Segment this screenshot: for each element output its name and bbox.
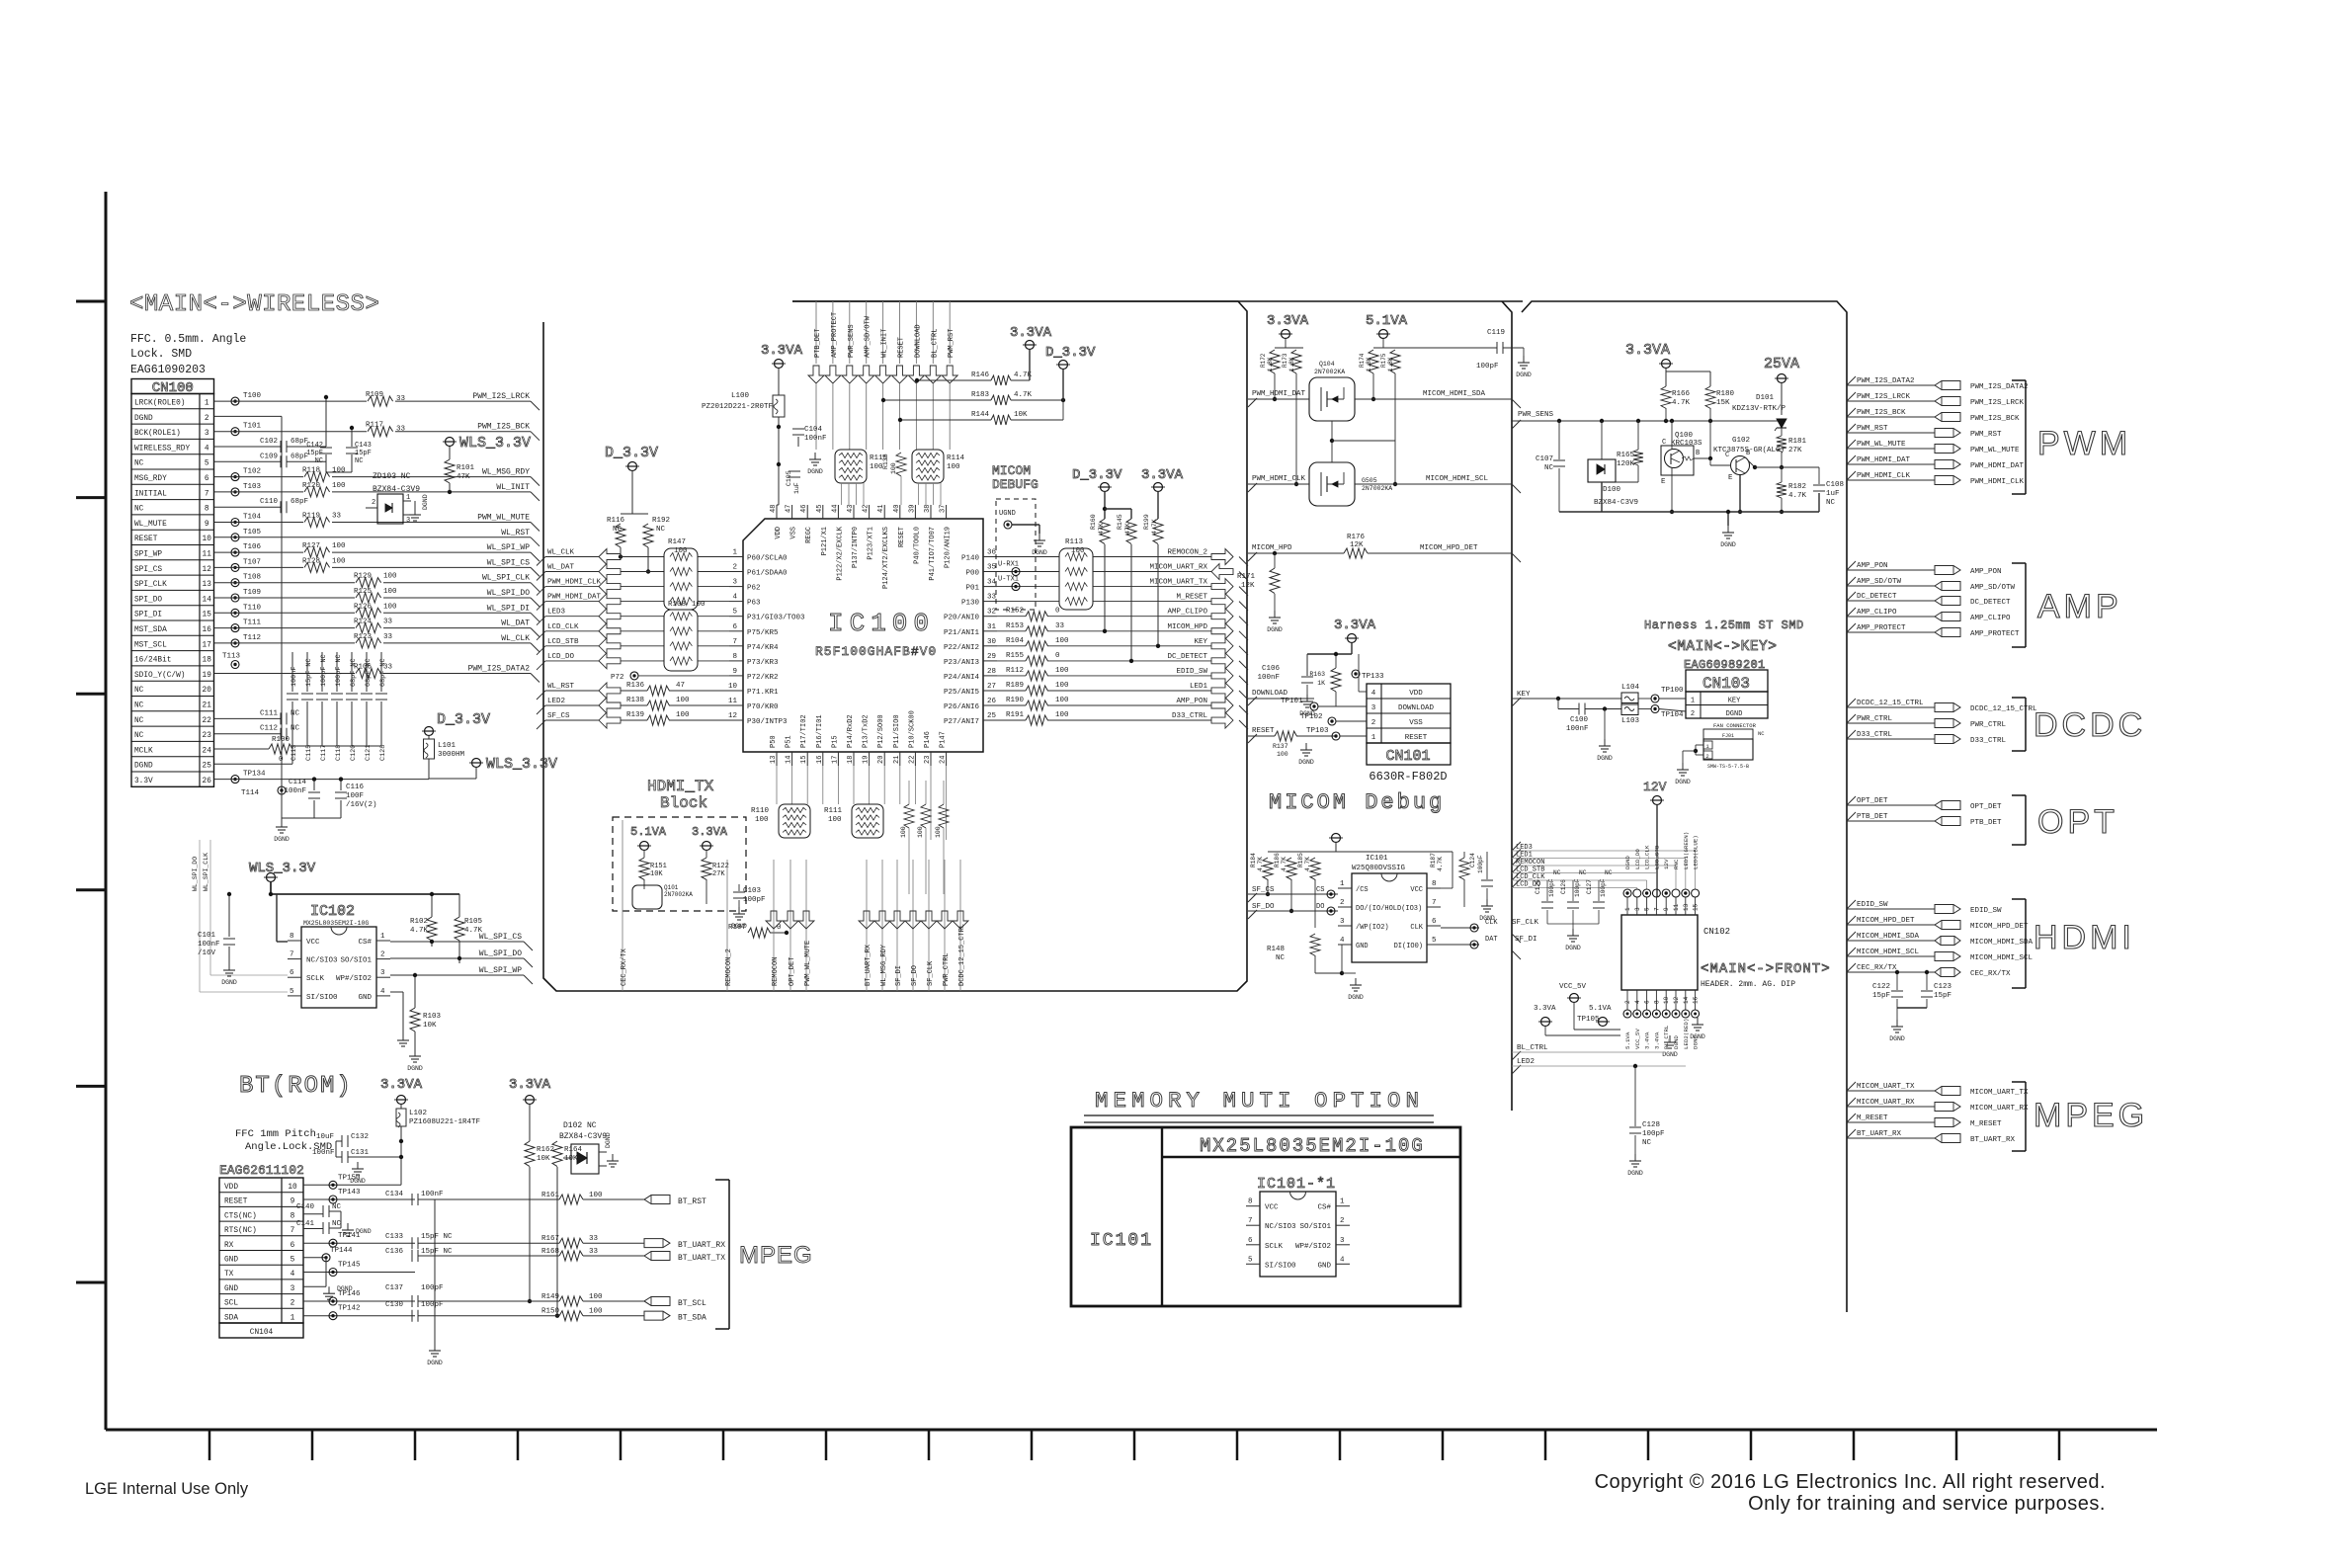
svg-text:100F: 100F — [346, 792, 364, 800]
wire net EDID_SW / resistor R112 — [997, 667, 1248, 685]
svg-text:34: 34 — [987, 579, 997, 587]
wire net AMP_CLIPO to edge — [1847, 608, 2011, 622]
svg-text:SF_DO: SF_DO — [1252, 903, 1275, 911]
svg-text:NC: NC — [134, 506, 144, 514]
svg-text:DGND: DGND — [422, 494, 429, 510]
svg-text:WL_MUTE: WL_MUTE — [134, 521, 167, 529]
svg-text:100nF: 100nF — [284, 787, 306, 795]
svg-text:1.8K: 1.8K — [1387, 357, 1394, 371]
svg-text:KEY: KEY — [1728, 698, 1741, 705]
test point T102 — [231, 473, 239, 481]
svg-text:PWM_I2S_BCK: PWM_I2S_BCK — [1970, 415, 2020, 423]
svg-text:45: 45 — [816, 505, 824, 513]
svg-text:7: 7 — [290, 951, 294, 959]
IC100 left pin 4 — [729, 601, 743, 603]
svg-text:2: 2 — [380, 951, 385, 959]
capacitors C125 C126 C127 — [1535, 869, 1613, 951]
svg-text:R147: R147 — [668, 538, 686, 546]
capacitor C142 C143 — [306, 395, 372, 472]
svg-text:3.3VA: 3.3VA — [1141, 467, 1184, 483]
svg-text:DGND: DGND — [1597, 755, 1613, 762]
svg-text:REMOCON_2: REMOCON_2 — [1167, 549, 1207, 557]
svg-text:RESET: RESET — [898, 337, 906, 358]
test point T110 — [231, 609, 239, 617]
svg-text:SI/SIO0: SI/SIO0 — [1265, 1262, 1296, 1270]
svg-text:DGND: DGND — [1627, 1170, 1643, 1177]
power 3.3VA debug — [1141, 467, 1184, 519]
svg-text:EDID_SW: EDID_SW — [1176, 668, 1207, 676]
svg-text:41: 41 — [877, 505, 885, 513]
ground DGND C100 — [1597, 709, 1613, 763]
resistor R119 — [302, 513, 342, 529]
resistor R164 10K — [552, 1126, 583, 1318]
svg-text:15K: 15K — [1716, 399, 1730, 407]
svg-text:DGND: DGND — [807, 468, 823, 475]
svg-text:Harness 1.25mm ST SMD: Harness 1.25mm ST SMD — [1644, 619, 1804, 632]
svg-text:C124: C124 — [1469, 853, 1476, 867]
svg-text:100nF: 100nF — [291, 667, 298, 687]
svg-text:MICOM_UART_RX: MICOM_UART_RX — [1970, 1105, 2029, 1113]
svg-text:12: 12 — [203, 566, 212, 574]
vertical net SF_DO — [911, 860, 919, 991]
vertical net REMOCON — [772, 860, 780, 991]
diode D102 BZX84-C3V9 — [557, 1121, 619, 1174]
svg-text:P124/XT2/EXCLKS: P124/XT2/EXCLKS — [882, 527, 890, 589]
svg-text:R5F100GHAFB#V0: R5F100GHAFB#V0 — [815, 644, 937, 659]
svg-text:47K: 47K — [1098, 523, 1105, 535]
svg-text:R155: R155 — [1006, 652, 1025, 660]
svg-text:15pF: 15pF — [355, 450, 372, 457]
svg-text:C120: C120 — [350, 745, 358, 761]
svg-text:PWR_CTRL: PWR_CTRL — [943, 952, 951, 986]
svg-text:NC: NC — [134, 460, 144, 468]
svg-text:BT_UART_RX: BT_UART_RX — [1970, 1136, 2016, 1144]
resistor R192 NC — [643, 514, 670, 574]
wire net CEC_RX/TX to edge — [1847, 963, 2011, 978]
svg-text:EAG61090203: EAG61090203 — [130, 364, 206, 376]
svg-text:R105: R105 — [464, 918, 483, 926]
svg-text:27: 27 — [987, 683, 996, 691]
svg-text:12K: 12K — [1241, 582, 1255, 590]
svg-text:3.3VA: 3.3VA — [1010, 325, 1052, 341]
resistor R101 — [445, 447, 475, 494]
svg-text:VCC: VCC — [306, 939, 320, 947]
svg-text:WIRELESS_RDY: WIRELESS_RDY — [134, 445, 190, 453]
vertical nets WL_SPI_DO WL_SPI_CLK — [192, 840, 288, 992]
capacitor C106 100nF — [1257, 654, 1314, 717]
IC100 right pin 26 — [983, 704, 997, 706]
IC100 bottom pin 17 — [837, 752, 839, 766]
svg-text:10: 10 — [728, 683, 738, 691]
resistor R183 4.7K — [881, 391, 1065, 405]
svg-text:R176: R176 — [1347, 534, 1366, 541]
resistor array R110 — [751, 804, 810, 838]
svg-text:Block: Block — [660, 794, 707, 812]
arrow down bottom bus — [889, 911, 905, 929]
capacitor bank C113-C128 — [287, 652, 387, 761]
svg-text:0: 0 — [279, 756, 284, 764]
wire SF_DI from winbond — [1441, 936, 1537, 949]
svg-text:R145: R145 — [1117, 514, 1123, 530]
wire net REMOCON — [1512, 857, 1676, 889]
arrow down net AMP_SD/OTW — [859, 366, 874, 383]
svg-text:T106: T106 — [243, 543, 262, 551]
svg-text:OPT_DET: OPT_DET — [1970, 803, 2002, 811]
svg-text:6630R-F802D: 6630R-F802D — [1369, 770, 1447, 784]
flag SF_CLK SF_DI at border — [1512, 934, 1521, 959]
capacitor C109 — [214, 453, 327, 467]
ground DGND GND3 — [303, 1285, 353, 1299]
IC100 left pin 1 — [729, 556, 743, 558]
svg-text:68pF: 68pF — [291, 498, 308, 506]
svg-text:2: 2 — [1371, 719, 1376, 727]
svg-text:CEC_RX/TX: CEC_RX/TX — [1857, 964, 1897, 972]
svg-text:R144: R144 — [971, 411, 990, 419]
svg-text:P22/ANI2: P22/ANI2 — [944, 644, 979, 652]
svg-text:100nF: 100nF — [312, 1149, 335, 1157]
svg-text:6: 6 — [1644, 1000, 1651, 1004]
svg-text:C128: C128 — [379, 745, 387, 761]
svg-text:VDD: VDD — [1409, 690, 1423, 698]
svg-text:P11/SIO0: P11/SIO0 — [893, 714, 901, 748]
svg-text:CS: CS — [1316, 886, 1324, 894]
svg-text:C116: C116 — [346, 784, 365, 791]
wire net PWR_CTRL to edge — [1847, 714, 2007, 729]
svg-text:T111: T111 — [243, 619, 262, 627]
svg-text:R113: R113 — [1065, 538, 1084, 546]
harness text MAIN-KEY — [1644, 619, 1804, 672]
svg-text:14: 14 — [1683, 996, 1690, 1004]
svg-text:P01: P01 — [965, 585, 979, 593]
svg-text:D_3.3V: D_3.3V — [1072, 467, 1122, 483]
svg-text:P75/KR5: P75/KR5 — [747, 629, 779, 637]
svg-text:PTB_DET: PTB_DET — [1857, 813, 1888, 821]
resistor R148 NC — [1267, 928, 1320, 973]
svg-text:5.1VA: 5.1VA — [1366, 313, 1408, 329]
svg-text:R135: R135 — [882, 454, 889, 469]
resistor R185 4.7K — [1297, 852, 1320, 928]
svg-text:16: 16 — [816, 756, 824, 764]
ground DGND below CN100 — [274, 790, 341, 843]
vertical net CEC_RX/TX — [621, 820, 628, 991]
svg-text:4: 4 — [1371, 690, 1376, 698]
svg-text:C110: C110 — [260, 498, 279, 506]
resistor R116 NC — [607, 514, 625, 559]
IC100 left pin 7 — [729, 645, 743, 647]
resistor R181 27K — [1777, 436, 1807, 469]
svg-text:DGND: DGND — [1516, 371, 1532, 378]
svg-text:PWM_I2S_BCK: PWM_I2S_BCK — [477, 423, 530, 432]
svg-text:8: 8 — [291, 1212, 295, 1220]
svg-text:PWM_RST: PWM_RST — [948, 329, 955, 358]
svg-text:NC: NC — [1642, 1139, 1652, 1147]
svg-text:MX25L8035EM2I-10G: MX25L8035EM2I-10G — [1200, 1135, 1425, 1157]
svg-text:R164: R164 — [564, 1146, 583, 1154]
svg-text:1: 1 — [291, 1314, 295, 1322]
svg-text:7: 7 — [1432, 899, 1437, 907]
svg-text:MICOM_HDMI_SCL: MICOM_HDMI_SCL — [1426, 475, 1489, 483]
svg-text:R163: R163 — [1309, 671, 1325, 678]
vertical net PWM_WL_MUTE — [804, 860, 812, 991]
resistor R126 — [354, 603, 397, 619]
svg-text:23: 23 — [203, 732, 212, 740]
svg-text:DGND: DGND — [1720, 541, 1736, 548]
wire net LCD_DO — [537, 653, 664, 670]
svg-text:IC100: IC100 — [828, 609, 935, 638]
svg-text:33: 33 — [1055, 622, 1065, 630]
svg-text:L100: L100 — [731, 392, 750, 400]
svg-text:R128: R128 — [302, 557, 320, 565]
wire net LED3 — [1512, 842, 1696, 889]
resistor R161 / stub BT_RST — [435, 1192, 706, 1206]
svg-text:REMOCON_2: REMOCON_2 — [725, 949, 733, 986]
IC100 bottom pin 18 — [853, 752, 855, 766]
svg-text:42: 42 — [863, 505, 871, 513]
svg-text:68pF NC: 68pF NC — [379, 658, 387, 687]
wire net LCD_CLK — [1512, 871, 1647, 889]
svg-text:P23/ANI3: P23/ANI3 — [944, 659, 980, 667]
svg-text:25VA: 25VA — [1764, 356, 1799, 372]
svg-text:3.3VA: 3.3VA — [1267, 313, 1309, 329]
svg-text:CN104: CN104 — [250, 1329, 274, 1337]
svg-text:C112: C112 — [260, 725, 278, 733]
arrow down bottom bus — [874, 911, 890, 929]
arrow down bottom bus — [953, 911, 968, 929]
svg-text:25: 25 — [987, 712, 997, 720]
svg-text:1: 1 — [1340, 1198, 1345, 1206]
wire winbond VCC — [1426, 852, 1453, 888]
svg-text:WL_SPI_DI: WL_SPI_DI — [487, 604, 530, 613]
svg-text:R160: R160 — [1090, 514, 1097, 530]
svg-text:TP142: TP142 — [338, 1305, 361, 1313]
resistor R184 4.7K — [1250, 852, 1273, 896]
resistor array R115 — [835, 450, 888, 483]
svg-text:PWM_HDMI_CLK: PWM_HDMI_CLK — [1252, 475, 1306, 483]
svg-text:R104: R104 — [1006, 637, 1025, 645]
wire DGND bus CN100 — [214, 416, 293, 790]
svg-text:C123: C123 — [1934, 983, 1952, 991]
ground DGND cap rail — [427, 1344, 443, 1366]
bracket OPT — [2012, 795, 2118, 845]
resistors R140 R141 R143 vertical 100 — [900, 781, 949, 894]
svg-text:C132: C132 — [351, 1133, 369, 1141]
svg-text:100pF: 100pF — [1600, 878, 1607, 897]
svg-text:GND: GND — [224, 1285, 238, 1293]
svg-text:NC: NC — [1276, 954, 1286, 962]
svg-text:17: 17 — [831, 756, 839, 764]
wire WL_SPI_WP from IC102 — [390, 966, 533, 984]
svg-text:CEC_RX/TX: CEC_RX/TX — [1970, 970, 2011, 978]
svg-text:100pF: 100pF — [1477, 855, 1484, 873]
svg-text:TP100: TP100 — [1661, 687, 1684, 695]
svg-text:RTS(NC): RTS(NC) — [224, 1227, 257, 1235]
svg-text:30: 30 — [987, 638, 997, 646]
resistor R175 1.8K — [1380, 350, 1400, 486]
svg-text:100: 100 — [383, 588, 397, 596]
svg-text:C121: C121 — [365, 745, 373, 761]
svg-text:35: 35 — [987, 564, 997, 572]
IC100 top pin 38 — [930, 505, 932, 519]
svg-text:2: 2 — [291, 1300, 295, 1308]
svg-text:R150: R150 — [541, 1308, 560, 1316]
wire net MICOM_UART_RX — [997, 564, 1248, 581]
svg-text:T104: T104 — [243, 514, 262, 522]
IC100 bottom pin 14 — [791, 752, 793, 766]
svg-text:P147: P147 — [940, 731, 948, 748]
IC100 bottom pin 20 — [883, 752, 885, 766]
svg-text:SPI_CS: SPI_CS — [134, 566, 162, 574]
svg-text:4: 4 — [1634, 1000, 1641, 1004]
IC100 right pin 28 — [983, 675, 997, 677]
svg-text:11: 11 — [728, 698, 738, 705]
svg-text:M_RESET: M_RESET — [1857, 1114, 1888, 1122]
svg-text:15pF: 15pF — [306, 450, 323, 457]
IC100 bottom pin 22 — [914, 752, 916, 766]
svg-text:DEBUFG: DEBUFG — [992, 477, 1038, 492]
wire net KEY / resistor R104 — [997, 637, 1248, 655]
svg-text:DGND: DGND — [134, 415, 153, 423]
power WLS_3.3V top — [443, 435, 531, 452]
arrow down bottom bus — [783, 911, 798, 929]
svg-text:DAT: DAT — [1485, 936, 1498, 944]
svg-text:R181: R181 — [1788, 438, 1807, 446]
svg-text:R184: R184 — [1250, 853, 1257, 867]
svg-text:32: 32 — [987, 609, 996, 617]
svg-text:LCD_STB: LCD_STB — [547, 638, 579, 646]
IC100 bottom pin 15 — [806, 752, 808, 766]
wire net LCD_STB — [1512, 865, 1656, 890]
svg-text:UGND: UGND — [999, 510, 1016, 518]
svg-text:33: 33 — [383, 619, 393, 626]
svg-text:PZ1608U221-1R4TF: PZ1608U221-1R4TF — [409, 1118, 480, 1126]
svg-text:R183: R183 — [971, 391, 990, 399]
svg-text:C127: C127 — [1586, 879, 1593, 894]
svg-text:15pF NC: 15pF NC — [421, 1248, 453, 1256]
capacitor C140 NC — [296, 1203, 342, 1217]
svg-text:3: 3 — [291, 1285, 295, 1293]
svg-text:BT_SDA: BT_SDA — [678, 1314, 706, 1323]
svg-text:PWM_WL_MUTE: PWM_WL_MUTE — [1970, 447, 2020, 454]
svg-text:WL_RST: WL_RST — [501, 529, 530, 537]
svg-text:P14/RxD2: P14/RxD2 — [847, 714, 855, 748]
svg-text:100: 100 — [692, 601, 706, 609]
svg-text:36: 36 — [987, 549, 997, 557]
wire net LED1 — [1512, 850, 1686, 890]
svg-text:100nF: 100nF — [1257, 674, 1280, 682]
resistor R129 — [354, 573, 397, 589]
svg-text:5: 5 — [1644, 907, 1651, 911]
connector CN103 — [1686, 670, 1768, 718]
svg-text:BZX84-C3V9: BZX84-C3V9 — [373, 485, 420, 494]
svg-text:100: 100 — [589, 1192, 603, 1199]
svg-text:10K: 10K — [1014, 411, 1028, 419]
bracket DCDC — [2012, 698, 2146, 751]
svg-text:P40/TOOL0: P40/TOOL0 — [913, 527, 921, 564]
svg-text:Copyright © 2016 LG Electronic: Copyright © 2016 LG Electronics Inc. All… — [1595, 1471, 2106, 1493]
bracket MPEG — [2012, 1082, 2148, 1151]
svg-text:R172: R172 — [1260, 353, 1267, 368]
svg-text:R137: R137 — [1273, 743, 1288, 750]
svg-text:C105: C105 — [786, 470, 792, 486]
resistor R173 1.8K — [1282, 350, 1301, 486]
svg-text:SF_CLK: SF_CLK — [927, 960, 935, 986]
svg-text:P70/KR0: P70/KR0 — [747, 703, 779, 711]
arrow down net RESET — [892, 366, 908, 383]
svg-text:BT_UART_TX: BT_UART_TX — [678, 1254, 725, 1263]
arrow down bottom bus — [766, 911, 782, 929]
svg-text:R171: R171 — [1237, 573, 1256, 581]
svg-text:25: 25 — [203, 763, 212, 771]
svg-text:T102: T102 — [243, 468, 261, 476]
svg-text:100pF NC: 100pF NC — [320, 654, 328, 687]
svg-text:OPT_DET: OPT_DET — [1857, 797, 1888, 805]
svg-text:T109: T109 — [243, 589, 261, 597]
wire net WL_SPI_CLK — [214, 574, 540, 592]
svg-text:T112: T112 — [243, 634, 261, 642]
svg-text:1: 1 — [205, 400, 209, 408]
svg-text:AMP_SD/OTW: AMP_SD/OTW — [1970, 584, 2016, 592]
ground DGND CN101 — [1298, 736, 1314, 766]
connector CN102 header — [1621, 832, 1730, 1049]
svg-text:PWM_HDMI_CLK: PWM_HDMI_CLK — [1970, 478, 2025, 486]
svg-text:IC101: IC101 — [1090, 1231, 1153, 1251]
svg-text:MICOM_UART_TX: MICOM_UART_TX — [1970, 1089, 2029, 1097]
svg-text:SPI_DO: SPI_DO — [134, 596, 162, 604]
svg-text:MPEG: MPEG — [739, 1242, 813, 1269]
wire net LCD_CLK — [537, 623, 664, 640]
svg-text:C130: C130 — [385, 1301, 404, 1309]
svg-text:8: 8 — [290, 933, 294, 941]
svg-text:2N7002KA: 2N7002KA — [1362, 485, 1392, 492]
svg-text:R125: R125 — [354, 588, 373, 596]
svg-text:C137: C137 — [385, 1284, 403, 1292]
svg-text:C122: C122 — [1872, 983, 1890, 991]
svg-text:PWM_HDMI_DAT: PWM_HDMI_DAT — [1252, 390, 1306, 398]
svg-text:R173: R173 — [1282, 353, 1288, 368]
resistor array R113 — [1059, 538, 1093, 610]
svg-text:100nF: 100nF — [1566, 725, 1589, 733]
svg-text:NC/SIO3: NC/SIO3 — [306, 957, 338, 965]
wire net WL_CLK — [214, 634, 540, 652]
svg-text:CTS(NC): CTS(NC) — [224, 1212, 257, 1220]
svg-text:REMOCON: REMOCON — [772, 957, 780, 986]
svg-text:KEY: KEY — [1194, 638, 1207, 646]
svg-text:C118: C118 — [335, 745, 343, 761]
svg-text:R151: R151 — [650, 863, 667, 870]
svg-text:NC: NC — [1605, 869, 1613, 876]
svg-text:NC: NC — [134, 732, 144, 740]
svg-text:DC_DETECT: DC_DETECT — [1857, 593, 1897, 601]
svg-text:100: 100 — [1055, 682, 1069, 690]
svg-text:NC: NC — [134, 687, 144, 695]
svg-text:8: 8 — [1432, 880, 1437, 888]
svg-text:NC: NC — [1544, 464, 1554, 472]
wire net WL_DAT — [537, 564, 664, 581]
svg-text:RNC: RNC — [1673, 859, 1680, 869]
svg-text:12K: 12K — [1350, 541, 1364, 549]
svg-text:D_3.3V: D_3.3V — [437, 711, 490, 728]
svg-text:120K: 120K — [1617, 460, 1635, 468]
svg-text:P137/INTP0: P137/INTP0 — [852, 527, 860, 568]
svg-text:L103: L103 — [1621, 717, 1640, 725]
svg-text:7: 7 — [1248, 1217, 1253, 1225]
svg-text:WL_SPI_CLK: WL_SPI_CLK — [482, 574, 530, 583]
svg-text:LCD_CLK: LCD_CLK — [547, 623, 579, 631]
svg-text:HDMI_TX: HDMI_TX — [647, 778, 714, 795]
svg-text:100pF NC: 100pF NC — [335, 654, 343, 687]
test point TP150 — [329, 1181, 337, 1189]
svg-text:R118: R118 — [302, 467, 320, 475]
